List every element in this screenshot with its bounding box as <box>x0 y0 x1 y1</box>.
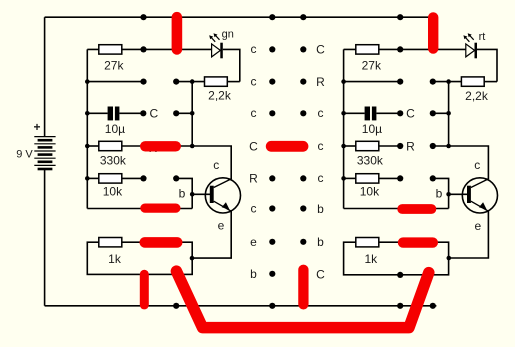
resistor 1k left <box>99 238 122 247</box>
resistor 2,2k left <box>205 77 228 86</box>
svg-text:c: c <box>251 106 257 120</box>
svg-text:R: R <box>406 139 415 153</box>
wire row5 left <box>87 145 99 147</box>
red jumper top right <box>428 17 438 48</box>
svg-text:1k: 1k <box>364 252 378 266</box>
svg-text:c: c <box>251 42 257 56</box>
svg-text:e: e <box>474 219 481 233</box>
wire LED cathode to bend <box>223 49 240 81</box>
wire row3 left inner <box>176 81 204 83</box>
capacitor 10u left <box>108 107 120 121</box>
collector wire left <box>192 146 231 179</box>
svg-text:9 V: 9 V <box>16 149 33 161</box>
base net wire left <box>176 178 192 208</box>
battery 9V <box>34 17 55 306</box>
junction dots x448 net <box>446 79 451 260</box>
collector wire right <box>449 146 489 179</box>
wire row7 right <box>344 208 449 210</box>
wire row3 left <box>87 81 143 83</box>
wire row4 left inner <box>176 112 192 114</box>
svg-text:C: C <box>406 107 415 121</box>
svg-text:C: C <box>316 43 325 57</box>
wire cap to dot <box>119 112 143 114</box>
wire 10k to dot right <box>379 177 400 179</box>
1k loop right <box>344 242 449 275</box>
svg-text:b: b <box>436 187 443 201</box>
svg-text:c: c <box>318 106 324 120</box>
breadboard dots column F <box>430 79 436 309</box>
red jumper row5 middle <box>271 141 303 152</box>
resistor 10k right <box>356 174 379 183</box>
1k loop left <box>87 242 192 274</box>
svg-text:b: b <box>250 267 257 281</box>
wire row5 right <box>344 145 356 147</box>
breadboard dots column B <box>173 79 179 309</box>
resistor 27k left <box>99 45 122 54</box>
svg-text:rt: rt <box>479 31 486 43</box>
svg-text:b: b <box>179 187 186 201</box>
svg-text:R: R <box>316 75 325 89</box>
red jumper row7 right <box>402 204 431 214</box>
junction dots x192 net <box>190 79 195 260</box>
red jumper row5 left <box>145 141 176 151</box>
red jumper bottom left vertical <box>140 274 149 305</box>
wire row7 left <box>87 208 192 210</box>
capacitor 10u right <box>365 107 377 121</box>
svg-text:330k: 330k <box>357 153 384 167</box>
svg-text:27k: 27k <box>362 58 382 72</box>
base lead right <box>449 193 468 195</box>
wire row5 right inner <box>379 145 400 147</box>
red ground cable <box>176 271 428 327</box>
svg-text:b: b <box>317 235 324 249</box>
breadboard letters right column <box>316 43 325 282</box>
svg-text:10k: 10k <box>360 185 380 199</box>
svg-text:c: c <box>318 171 324 185</box>
emitter wire left <box>192 211 231 258</box>
svg-text:1k: 1k <box>108 252 122 266</box>
svg-text:2,2k: 2,2k <box>208 88 232 102</box>
red jumper row7 left <box>145 204 176 213</box>
svg-text:27k: 27k <box>104 58 124 72</box>
right vertical rail <box>343 49 345 208</box>
wire LED cathode to bend right <box>477 49 497 81</box>
red jumper row8 right <box>403 237 433 247</box>
svg-text:10µ: 10µ <box>362 122 382 136</box>
breadboard letters left column <box>249 42 258 281</box>
resistor 330k left <box>99 141 122 150</box>
transistor T1 <box>205 178 240 213</box>
svg-text:2,2k: 2,2k <box>465 89 489 103</box>
wire row4 right inner <box>433 112 449 114</box>
svg-text:R: R <box>249 172 258 186</box>
wire row2 right <box>344 48 466 50</box>
wire row6 right <box>344 177 356 179</box>
emitter wire right <box>449 211 489 258</box>
breadboard dots column A <box>140 14 146 181</box>
red jumper top left <box>172 17 183 49</box>
svg-text:c: c <box>474 158 480 172</box>
svg-text:10k: 10k <box>103 185 123 199</box>
breadboard dots column C <box>269 14 275 309</box>
wire row6 left <box>87 177 99 179</box>
svg-text:10µ: 10µ <box>105 122 125 136</box>
vertical net wire x192 left <box>191 82 193 146</box>
bottom ground wire <box>45 305 437 307</box>
wire 2,2k right lead right <box>484 81 497 83</box>
breadboard dots column D <box>300 14 306 245</box>
svg-text:c: c <box>213 158 219 172</box>
svg-text:c: c <box>251 74 257 88</box>
svg-text:330k: 330k <box>100 153 127 167</box>
vertical net wire x448 right <box>448 82 450 146</box>
svg-text:C: C <box>249 139 258 153</box>
wire row3 right inner <box>433 81 462 83</box>
svg-text:e: e <box>250 235 257 249</box>
base lead left <box>192 193 210 195</box>
wire row5 dot to junction right <box>433 145 449 147</box>
svg-text:c: c <box>318 139 324 153</box>
wire cap to dot right <box>376 112 400 114</box>
base net wire right <box>433 178 449 208</box>
resistor 27k right <box>356 45 379 54</box>
svg-text:C: C <box>149 107 158 121</box>
wire 2,2k right lead <box>227 81 240 83</box>
LED rt <box>463 33 477 58</box>
wire 10k to dot <box>122 177 144 179</box>
svg-text:b: b <box>317 202 324 216</box>
wire row3 right <box>344 81 401 83</box>
wire row4 left <box>87 112 107 114</box>
resistor 10k left <box>99 174 122 183</box>
red jumper middle vertical <box>298 270 308 305</box>
junction dots left rail <box>85 79 90 180</box>
resistor 330k right <box>356 141 379 150</box>
red jumper row8 left <box>145 237 177 248</box>
wire row5 left inner <box>122 145 192 147</box>
svg-text:gn: gn <box>222 28 234 40</box>
svg-text:c: c <box>251 201 257 215</box>
junction dots right rail <box>341 79 346 180</box>
transistor T2 <box>462 178 497 213</box>
top supply wire <box>45 16 433 18</box>
left vertical rail <box>86 49 88 208</box>
wire row2 left <box>87 48 211 50</box>
svg-text:+: + <box>33 120 40 134</box>
svg-text:C: C <box>316 267 325 281</box>
breadboard dots column E <box>397 14 403 309</box>
svg-text:e: e <box>218 218 225 232</box>
resistor 1k right <box>356 238 379 247</box>
wire row4 right <box>344 112 365 114</box>
LED gn <box>209 33 223 58</box>
resistor 2,2k right <box>461 77 484 86</box>
